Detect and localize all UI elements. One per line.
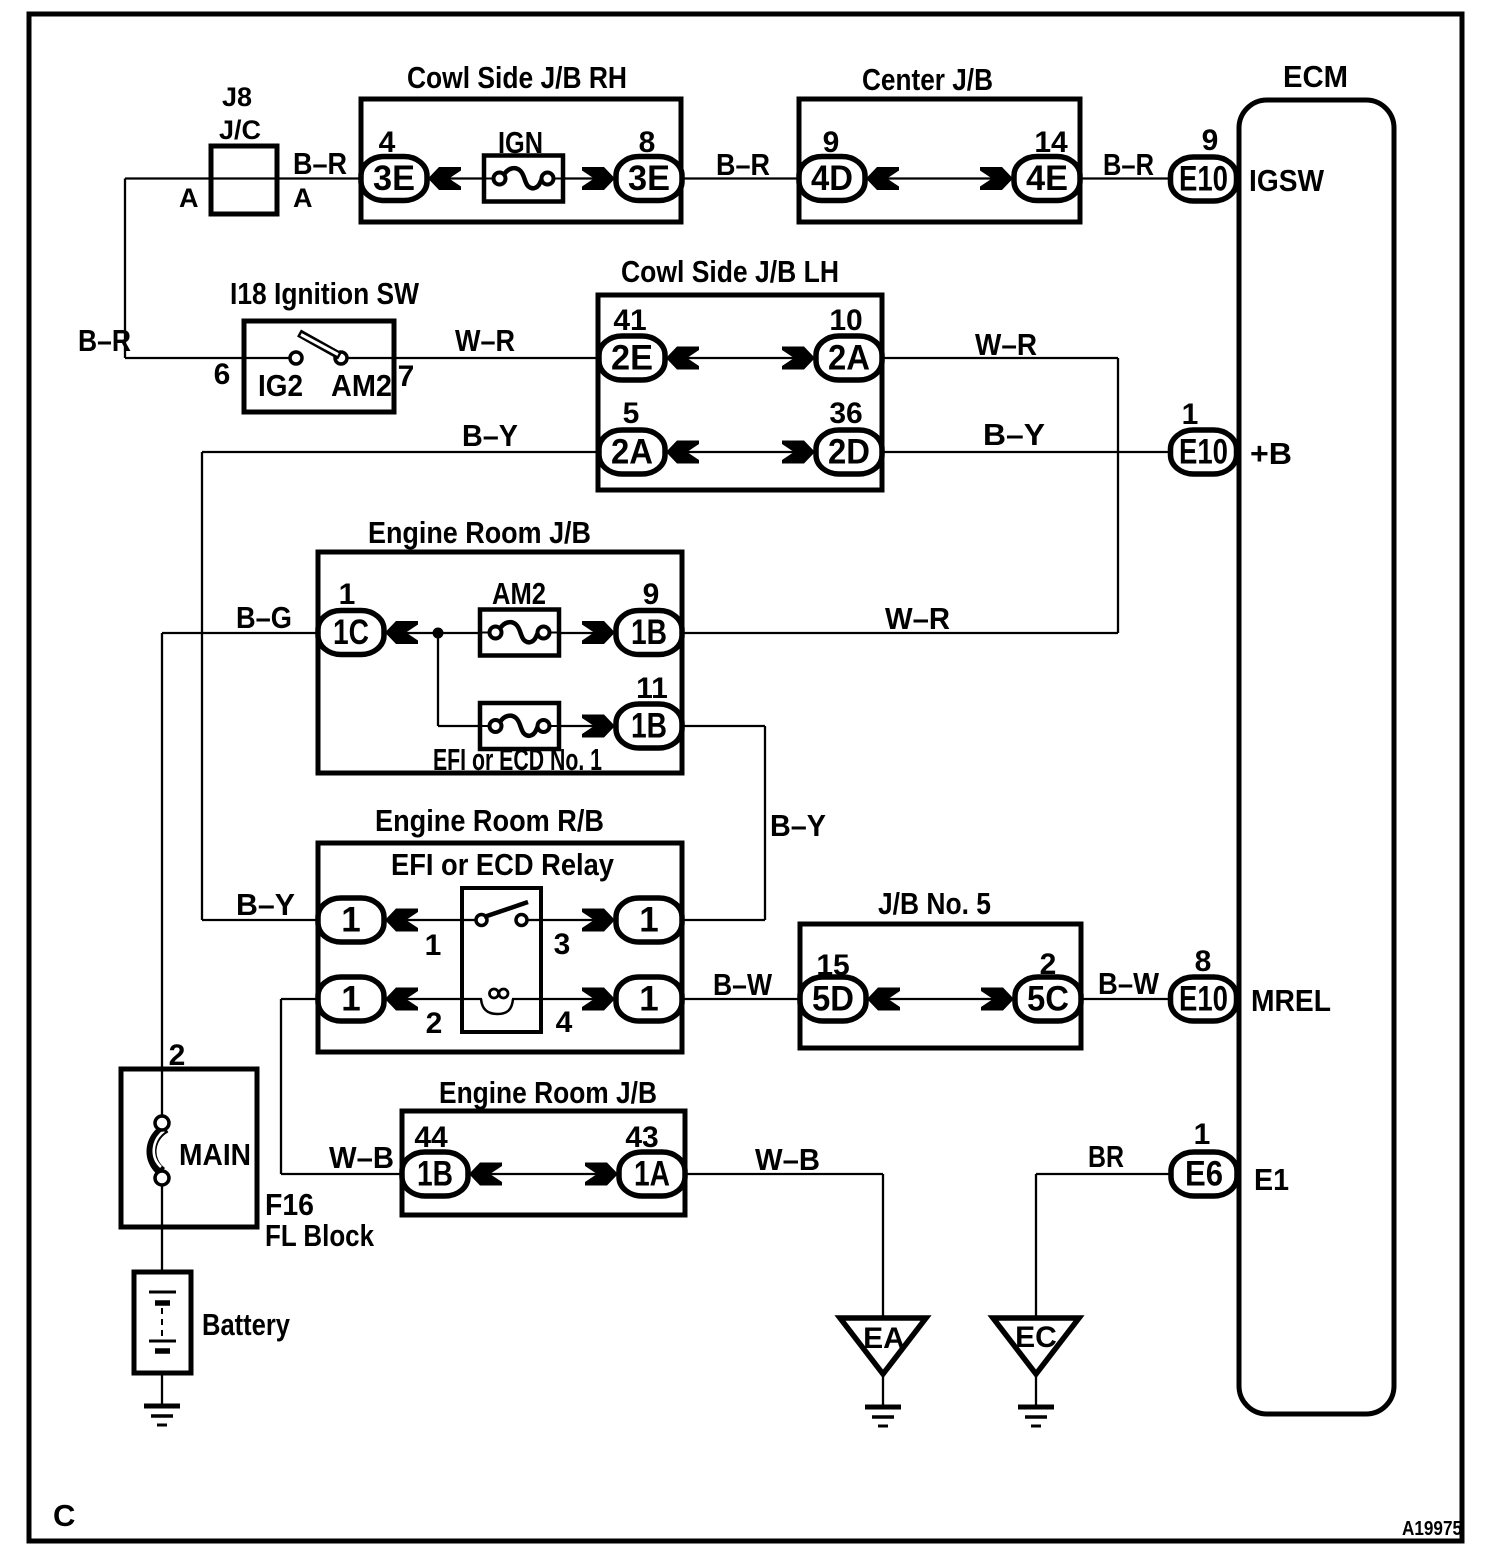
svg-text:10: 10	[829, 304, 862, 337]
svg-text:W–R: W–R	[975, 327, 1037, 362]
svg-text:MREL: MREL	[1251, 983, 1331, 1018]
svg-text:Engine Room R/B: Engine Room R/B	[375, 803, 604, 838]
svg-text:E1: E1	[1254, 1162, 1289, 1197]
svg-text:2A: 2A	[611, 433, 653, 472]
svg-text:EFI or ECD Relay: EFI or ECD Relay	[391, 847, 615, 882]
svg-text:1B: 1B	[631, 613, 667, 652]
svg-text:5: 5	[623, 397, 640, 430]
svg-text:11: 11	[636, 672, 668, 705]
svg-text:1: 1	[1182, 398, 1199, 431]
svg-text:43: 43	[625, 1121, 658, 1154]
svg-text:B–Y: B–Y	[770, 808, 826, 843]
svg-text:Cowl Side J/B LH: Cowl Side J/B LH	[621, 254, 839, 289]
svg-text:8: 8	[639, 126, 656, 159]
svg-text:5D: 5D	[812, 980, 854, 1019]
svg-text:2: 2	[169, 1039, 186, 1072]
svg-text:9: 9	[1202, 124, 1219, 157]
svg-text:J/C: J/C	[219, 115, 261, 145]
svg-text:14: 14	[1034, 126, 1068, 159]
svg-text:AM2: AM2	[331, 368, 392, 403]
svg-text:B–R: B–R	[78, 323, 131, 358]
svg-text:B–W: B–W	[713, 967, 773, 1002]
svg-text:J/B No. 5: J/B No. 5	[878, 886, 991, 921]
svg-text:EA: EA	[863, 1322, 905, 1355]
svg-text:2: 2	[1040, 948, 1057, 981]
svg-text:9: 9	[823, 126, 840, 159]
svg-text:E6: E6	[1185, 1155, 1223, 1194]
svg-text:E10: E10	[1179, 433, 1228, 472]
svg-text:1: 1	[425, 929, 442, 962]
svg-text:E10: E10	[1179, 160, 1228, 199]
svg-text:15: 15	[816, 949, 849, 982]
svg-text:1: 1	[341, 980, 360, 1019]
svg-text:Center J/B: Center J/B	[862, 62, 993, 97]
svg-text:2: 2	[426, 1007, 443, 1040]
svg-text:9: 9	[643, 578, 660, 611]
svg-text:2A: 2A	[828, 339, 870, 378]
svg-text:Cowl Side J/B RH: Cowl Side J/B RH	[407, 60, 627, 95]
svg-text:36: 36	[829, 397, 862, 430]
svg-text:3E: 3E	[373, 159, 415, 198]
svg-text:W–R: W–R	[455, 323, 515, 358]
svg-text:B–Y: B–Y	[236, 887, 295, 922]
svg-text:AM2: AM2	[492, 576, 546, 611]
svg-text:IGSW: IGSW	[1249, 163, 1325, 198]
svg-text:ECM: ECM	[1283, 59, 1348, 94]
svg-text:EC: EC	[1015, 1321, 1057, 1354]
svg-text:B–R: B–R	[1103, 147, 1154, 182]
svg-text:1: 1	[639, 980, 658, 1019]
svg-text:3E: 3E	[628, 159, 670, 198]
svg-text:Battery: Battery	[202, 1307, 291, 1342]
svg-text:B–G: B–G	[236, 600, 292, 635]
svg-text:1C: 1C	[333, 613, 369, 652]
svg-text:7: 7	[398, 360, 415, 393]
svg-text:5C: 5C	[1027, 980, 1069, 1019]
svg-text:EFI or ECD No. 1: EFI or ECD No. 1	[433, 742, 602, 777]
svg-text:1A: 1A	[634, 1155, 670, 1194]
svg-text:FL Block: FL Block	[265, 1218, 375, 1253]
svg-text:B–R: B–R	[716, 147, 770, 182]
svg-text:2E: 2E	[611, 339, 653, 378]
svg-text:4E: 4E	[1026, 159, 1068, 198]
svg-text:1: 1	[341, 901, 360, 940]
svg-text:1: 1	[639, 901, 658, 940]
svg-text:C: C	[53, 1498, 75, 1533]
svg-text:Engine Room J/B: Engine Room J/B	[368, 515, 591, 550]
svg-text:IG2: IG2	[258, 368, 303, 403]
svg-text:E10: E10	[1179, 980, 1228, 1019]
svg-text:+B: +B	[1250, 436, 1292, 471]
svg-text:8: 8	[1195, 945, 1212, 978]
svg-text:W–R: W–R	[885, 601, 950, 636]
svg-text:1B: 1B	[417, 1155, 453, 1194]
svg-text:W–B: W–B	[755, 1142, 820, 1177]
svg-text:F16: F16	[265, 1187, 314, 1222]
svg-text:6: 6	[214, 358, 231, 391]
svg-text:2D: 2D	[828, 433, 870, 472]
svg-text:1: 1	[1194, 1118, 1211, 1151]
svg-text:Engine Room J/B: Engine Room J/B	[439, 1075, 657, 1110]
svg-text:B–Y: B–Y	[983, 417, 1045, 452]
svg-text:W–B: W–B	[329, 1140, 394, 1175]
svg-text:44: 44	[414, 1121, 448, 1154]
svg-text:J8: J8	[222, 82, 252, 112]
svg-text:B–Y: B–Y	[462, 418, 518, 453]
svg-text:41: 41	[613, 304, 646, 337]
svg-text:B–R: B–R	[293, 146, 347, 181]
svg-text:BR: BR	[1088, 1139, 1124, 1174]
svg-text:A19975: A19975	[1402, 1518, 1462, 1540]
svg-text:4: 4	[556, 1006, 573, 1039]
svg-text:I18 Ignition SW: I18 Ignition SW	[230, 276, 420, 311]
svg-text:3: 3	[554, 928, 571, 961]
svg-text:MAIN: MAIN	[179, 1137, 251, 1172]
svg-text:4D: 4D	[811, 159, 853, 198]
svg-text:B–W: B–W	[1098, 966, 1160, 1001]
svg-text:4: 4	[379, 126, 396, 159]
svg-text:1B: 1B	[631, 707, 667, 746]
svg-text:A: A	[293, 183, 313, 213]
svg-text:1: 1	[339, 578, 356, 611]
svg-text:A: A	[179, 183, 199, 213]
svg-text:IGN: IGN	[498, 125, 543, 160]
